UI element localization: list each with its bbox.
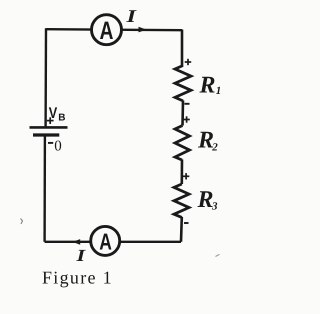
stray scan speck (right of bottom ammeter)	[216, 254, 220, 256]
current arrow (top, pointing right)	[139, 27, 147, 33]
label R3	[197, 187, 219, 213]
svg-text:1: 1	[216, 85, 222, 97]
label I (bottom current)	[75, 246, 87, 265]
label R1	[199, 73, 222, 99]
plus sign at battery positive terminal	[47, 117, 54, 124]
label I (top current)	[125, 6, 137, 26]
svg-text:I: I	[75, 246, 87, 265]
current arrow (bottom, pointing left)	[72, 239, 80, 245]
resistor R2	[175, 126, 190, 161]
resistor R1	[175, 66, 191, 101]
svg-text:R: R	[199, 73, 216, 99]
wire right lower (R3 down to bottom-right corner)	[180, 217, 183, 242]
stray scan speck	[21, 219, 23, 225]
ammeter A2 (bottom)	[91, 226, 120, 255]
wire left lower (battery - plate down to bottom-left corner)	[43, 136, 46, 242]
label VB	[49, 105, 66, 123]
svg-text:R: R	[197, 187, 214, 213]
svg-text:3: 3	[211, 200, 218, 212]
wire left upper (top-left corner down to battery + plate)	[44, 28, 47, 127]
minus sign at R3 bottom	[184, 222, 189, 224]
svg-text:2: 2	[211, 141, 218, 153]
ammeter A1 (top)	[92, 15, 122, 45]
label R2	[197, 128, 218, 154]
plus sign at R1 top	[185, 59, 192, 65]
minus sign at battery negative terminal	[48, 142, 53, 144]
resistor R3	[174, 184, 189, 217]
svg-text:A: A	[99, 228, 112, 254]
svg-text:Figure 1: Figure 1	[42, 268, 113, 288]
svg-text:B: B	[58, 112, 65, 123]
svg-text:A: A	[100, 16, 114, 45]
wire top (from top-left corner to top-right corner)	[46, 29, 182, 30]
plus sign at R2 top	[183, 116, 189, 122]
svg-text:I: I	[125, 6, 137, 26]
battery VB: + plate (long)	[30, 126, 68, 129]
wire right upper (top-right corner down to R1)	[181, 30, 184, 67]
wire right between R2 and R3	[181, 160, 184, 185]
wire bottom (bottom-left corner to bottom-right corner)	[45, 241, 181, 243]
battery VB: - plate (short thick)	[33, 133, 59, 136]
svg-text:0: 0	[54, 139, 62, 155]
wire right between R1 and R2	[181, 101, 184, 126]
plus sign at R3 top	[183, 173, 189, 179]
minus sign at R1 bottom	[185, 103, 190, 105]
